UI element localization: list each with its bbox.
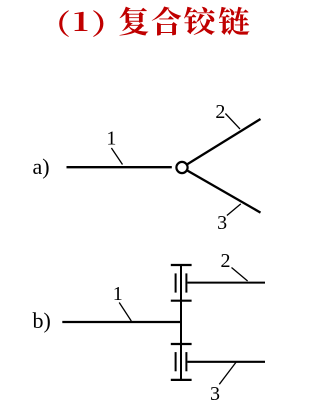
title: （1）复合铰链 [59,7,249,37]
svg-text:3: 3 [210,383,220,405]
wire: link 1 of b [62,321,181,323]
wire: link 2 of b [187,282,265,284]
svg-text:2: 2 [215,101,225,123]
svg-text:1: 1 [106,128,116,150]
svg-text:3: 3 [217,212,227,234]
clevis right line of lower joint [185,352,187,371]
clevis right line of upper joint [185,273,187,292]
svg-text:2: 2 [221,250,231,272]
bottom cap bar of lower joint [171,379,192,381]
leader line to label 2 (b) [232,268,248,282]
top cap bar of upper joint [171,264,192,266]
lower cap bar of upper joint [171,300,192,302]
svg-text:b): b) [33,308,51,333]
leader line to label 3 (a) [227,204,241,216]
vertical link of b (pin shaft) [180,265,182,380]
top cap bar of lower joint [171,343,192,345]
svg-text:1: 1 [113,283,123,305]
wire: link 3 of b [187,361,265,363]
leader line to label 1 (b) [119,303,131,322]
wire: link 1 of a [67,166,172,168]
revolute joint circle of a [176,162,187,173]
leader line to label 2 (a) [225,114,240,130]
leader line to label 1 (a) [111,148,122,165]
svg-text:a): a) [33,154,50,179]
leader line to label 3 (b) [219,362,236,384]
clevis left line of lower joint [175,352,177,371]
clevis left line of upper joint [175,273,177,292]
wire: link 3 of a [182,168,261,213]
wire: link 2 of a [182,119,261,168]
